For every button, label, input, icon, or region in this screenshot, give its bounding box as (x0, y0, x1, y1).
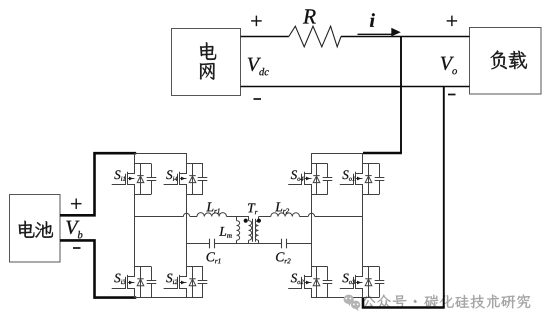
transistor S_o1 MOSFET (340, 164, 363, 195)
diode S_o2 body diode (313, 267, 320, 298)
transistor S_o4 cell top bus wire (311, 163, 328, 165)
wire left bridge leg A (134, 153, 136, 164)
label Vb (66, 221, 79, 234)
transistor S_o3 cell top bus wire (362, 266, 379, 268)
label - battery (73, 247, 81, 249)
wire from top bus down to right bridge positive rail (400, 37, 402, 154)
wire top bus grid to load (241, 36, 289, 38)
wire right bridge negative rail (311, 297, 363, 299)
wire battery negative to left bridge (thick) (60, 240, 136, 297)
label Tr (248, 203, 255, 212)
watermark icon chat bubbles (344, 295, 361, 311)
transistor S_i1 cell top bus wire (134, 163, 151, 165)
transformer Tr secondary winding (258, 217, 260, 221)
label Lr1 (206, 202, 213, 211)
wire AC bottom leg B to Cr1 (187, 243, 210, 245)
transistor S_o3 MOSFET (340, 267, 363, 298)
label S_i4 (166, 170, 172, 179)
wire S_o2 cell bottom bus (311, 297, 328, 299)
transistor S_o1 cell top bus wire (362, 163, 379, 165)
transistor S_i1 MOSFET (112, 164, 135, 195)
wire S_o4 cell bottom bus (311, 194, 328, 196)
wire transformer secondary to Lr2 (259, 216, 271, 218)
node dot secondary (257, 219, 261, 223)
grid box 电网 (172, 29, 241, 96)
capacitor S_i1 snubber cap (147, 164, 157, 195)
diode S_i3 body diode (137, 267, 144, 298)
load box 负载 (470, 28, 542, 95)
wire right bridge leg A (311, 153, 313, 164)
label S_o4 (291, 170, 297, 179)
transistor S_o4 MOSFET (288, 164, 311, 195)
label Cr1 (207, 252, 215, 261)
capacitor Cr2 (282, 239, 287, 249)
wire Cr2 to right bridge left leg (287, 243, 312, 245)
capacitor S_o3 snubber cap (375, 267, 385, 298)
wire hop over leg B (183, 213, 189, 216)
label + battery (71, 199, 81, 209)
label S_o3 (342, 274, 348, 283)
inductor Lm magnetizing (236, 217, 238, 221)
transistor S_i3 MOSFET (112, 267, 135, 298)
wire from bottom bus down to right bridge negative rail (443, 87, 445, 308)
wire left bridge positive rail (135, 153, 187, 155)
label Vo (441, 57, 454, 70)
label S_o1 (342, 170, 348, 179)
capacitor S_i3 snubber cap (147, 267, 157, 298)
wire left bridge negative rail (135, 297, 187, 299)
inductor Lr2 (271, 213, 300, 217)
wire S_i3 cell bottom bus (134, 297, 151, 299)
transformer Tr primary winding (248, 217, 250, 221)
wire right bridge leg B (362, 153, 364, 164)
wire Lr1 to transformer (227, 216, 249, 218)
transformer Tr core (252, 219, 254, 242)
diode S_o3 body diode (365, 267, 372, 298)
capacitor S_o1 snubber cap (375, 164, 385, 195)
wire right bridge positive rail (311, 153, 363, 155)
label R (303, 9, 316, 23)
transistor S_i4 cell top bus wire (186, 163, 203, 165)
wire Cr1 to Cr2 under transformer (215, 243, 282, 245)
wire bottom bus grid to load (241, 86, 470, 88)
wire AC top left leg to Lr1 (135, 216, 184, 218)
label Vdc (248, 58, 261, 71)
capacitor Cr1 (210, 239, 215, 249)
label Cr2 (276, 252, 284, 261)
wire S_o1 cell bottom bus (362, 194, 379, 196)
transistor S_o2 MOSFET (288, 267, 311, 298)
capacitor S_i4 snubber cap (198, 164, 208, 195)
label S_i2 (166, 274, 172, 283)
wire right bridge positive rail thick part (363, 152, 402, 155)
label - load (448, 94, 456, 96)
wire Lr2 to right bridge with hop (300, 216, 309, 218)
label - grid (254, 98, 262, 100)
current arrow i (358, 33, 394, 35)
label + load (447, 16, 457, 26)
diode S_o4 body diode (313, 164, 320, 195)
capacitor S_o4 snubber cap (323, 164, 333, 195)
battery box 电池 (10, 195, 61, 263)
diode S_o1 body diode (365, 164, 372, 195)
wire S_i2 cell bottom bus (186, 297, 203, 299)
node dot primary (244, 219, 248, 223)
transistor S_i2 cell top bus wire (186, 266, 203, 268)
label S_i1 (114, 170, 120, 179)
label S_i3 (114, 274, 120, 283)
transistor S_i2 MOSFET (164, 267, 187, 298)
diode S_i1 body diode (137, 164, 144, 195)
wire left bridge leg B (186, 153, 188, 164)
label + grid (251, 16, 261, 26)
diode S_i4 body diode (189, 164, 196, 195)
wire S_o3 cell bottom bus (362, 297, 379, 299)
wire battery positive to left bridge (thick) (60, 153, 136, 215)
resistor R (289, 26, 341, 47)
transistor S_o2 cell top bus wire (311, 266, 328, 268)
wire S_i1 cell bottom bus (134, 194, 151, 196)
label S_o2 (291, 274, 297, 283)
wire right bridge negative return (thick) (363, 298, 445, 308)
wire S_i4 cell bottom bus (186, 194, 203, 196)
watermark text 公众号·碳化硅技术研究 (362, 296, 375, 308)
label i (370, 13, 375, 27)
capacitor S_o2 snubber cap (323, 267, 333, 298)
label Lr2 (275, 202, 282, 211)
diode S_i2 body diode (189, 267, 196, 298)
label Lm (219, 227, 226, 236)
capacitor S_i2 snubber cap (198, 267, 208, 298)
inductor Lr1 (197, 213, 227, 217)
transistor S_i3 cell top bus wire (134, 266, 151, 268)
transistor S_i4 MOSFET (164, 164, 187, 195)
